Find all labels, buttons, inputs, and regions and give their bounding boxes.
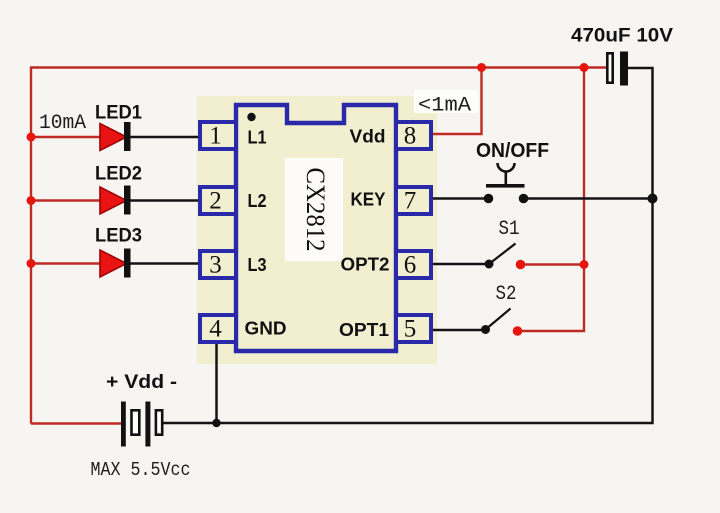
svg-text:470uF 10V: 470uF 10V [571,26,673,47]
svg-text:OPT2: OPT2 [341,254,390,275]
IC U1 body CX2812 [236,105,396,351]
svg-text:5: 5 [404,316,417,343]
wire: pin 5 to S2 [429,329,485,332]
wire: red switch rail [518,68,585,332]
wire: red stub to LED1 anode [31,136,102,138]
wire: LED1 cathode to pin 1 [130,136,202,139]
svg-text:6: 6 [404,252,417,279]
svg-text:Vdd: Vdd [350,126,386,147]
pin 3 box [200,251,236,278]
node A junction dot (left rail LED1) [27,133,36,142]
svg-text:<1mA: <1mA [418,95,471,118]
wire: red S1 branch [521,263,585,265]
svg-text:S2: S2 [496,283,517,306]
wire: GND pin 4 down to battery minus [215,343,218,423]
svg-text:KEY: KEY [351,189,387,210]
svg-text:LED3: LED3 [95,226,142,247]
junction dot GND battery [212,419,220,427]
svg-text:GND: GND [245,318,287,339]
wire: black bottom rail and right rail to capacitor [163,68,653,423]
svg-text:3: 3 [209,252,222,279]
wire: SW1 right contact to right rail [524,197,653,200]
switch S2 [481,309,511,335]
wire: red stub to LED3 anode [31,262,102,264]
pin 2 box [200,187,236,214]
svg-text:ON/OFF: ON/OFF [476,140,549,162]
capacitor C1 470uF [607,52,628,86]
svg-text:1: 1 [209,123,222,150]
pushbutton SW1 ON/OFF [484,163,529,203]
junction dot ON/OFF right rail [648,194,658,204]
svg-text:4: 4 [209,316,222,343]
pin 1 indicator dot [247,113,255,121]
pin 5 box [396,315,431,342]
junction dot left rail LED3 [27,259,36,268]
pin 7 box [396,187,431,214]
svg-text:CX2812: CX2812 [301,168,330,252]
svg-text:+ Vdd -: + Vdd - [106,372,177,393]
junction dot top rail pin8 branch [477,63,486,72]
pin 4 box [200,315,236,342]
svg-text:OPT1: OPT1 [339,319,389,340]
IC label CX2812 [285,158,343,261]
S1 fixed contact dot red [516,260,526,270]
svg-text:L1: L1 [248,127,267,148]
svg-text:10mA: 10mA [39,112,86,135]
battery BT1 [121,402,162,447]
svg-text:8: 8 [404,123,417,150]
junction dot top rail switch rail [580,63,589,72]
svg-text:7: 7 [404,188,417,215]
wire: pin 6 to S1 [429,263,489,266]
LED1 diode symbol [100,122,131,151]
wire: pin 7 to switch SW1 left contact [429,197,488,200]
S2 fixed contact dot red [513,326,523,336]
svg-text:LED1: LED1 [95,103,142,124]
svg-text:LED2: LED2 [95,164,142,185]
svg-text:2: 2 [209,188,222,215]
pin 1 box [200,122,236,149]
wire: red stub to LED2 anode [31,199,102,201]
svg-text:S1: S1 [499,218,520,241]
IC highlight background [197,96,437,364]
wire: LED2 cathode to pin 2 [130,199,202,202]
junction dot left rail LED2 [27,196,36,205]
pin 8 box [396,122,431,149]
junction dot S1 red rail [580,260,589,269]
wire: red bottom to battery BT1 [31,422,121,424]
LED2 diode symbol [100,186,131,215]
label <1mA [414,90,478,113]
wire: LED3 cathode to pin 3 [130,262,202,265]
svg-text:L3: L3 [248,254,267,275]
svg-text:L2: L2 [248,190,267,211]
switch S1 [485,244,516,269]
wire: red branch pin8 to top rail [429,68,482,135]
wire: top red rail from node A to capacitor C1 [31,68,606,424]
LED3 diode symbol [100,249,131,278]
svg-text:MAX 5.5Vcc: MAX 5.5Vcc [91,459,191,481]
pin 6 box [396,251,431,278]
